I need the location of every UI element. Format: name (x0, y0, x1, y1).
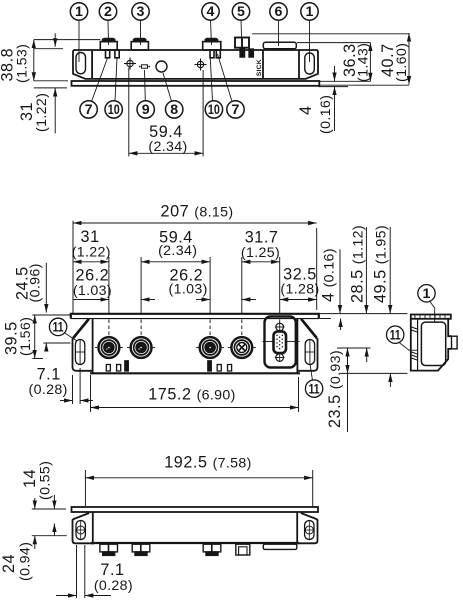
svg-text:(1.53): (1.53) (15, 44, 31, 83)
svg-text:4 (0.16): 4 (0.16) (320, 248, 338, 302)
svg-text:49.5 (1.95): 49.5 (1.95) (372, 225, 390, 303)
svg-text:26.2: 26.2 (76, 267, 110, 285)
svg-text:(1.56): (1.56) (18, 317, 34, 356)
svg-text:1: 1 (306, 4, 314, 20)
svg-text:7: 7 (232, 102, 240, 118)
svg-text:(0.55): (0.55) (38, 461, 54, 500)
svg-text:11: 11 (390, 327, 401, 343)
svg-text:31: 31 (81, 228, 100, 246)
svg-text:(0.16): (0.16) (318, 95, 334, 134)
svg-text:10: 10 (108, 102, 120, 118)
svg-text:(1.03): (1.03) (169, 282, 208, 298)
svg-text:14: 14 (21, 469, 39, 488)
svg-text:SICK: SICK (256, 59, 263, 76)
svg-text:23.5 (0.93): 23.5 (0.93) (326, 350, 344, 428)
svg-text:7.1: 7.1 (37, 366, 61, 384)
svg-text:9: 9 (142, 102, 150, 118)
svg-text:5: 5 (237, 4, 245, 20)
svg-text:28.5 (1.12): 28.5 (1.12) (349, 225, 367, 303)
svg-text:(1.03): (1.03) (73, 283, 112, 299)
svg-text:24: 24 (0, 554, 18, 573)
svg-text:(1.28): (1.28) (280, 281, 319, 297)
svg-text:2: 2 (104, 4, 112, 20)
svg-text:(1.22): (1.22) (72, 245, 111, 261)
svg-text:(1.22): (1.22) (34, 93, 50, 132)
svg-text:(1.60): (1.60) (394, 43, 410, 82)
svg-text:4: 4 (207, 4, 215, 20)
svg-text:10: 10 (208, 102, 220, 118)
svg-text:207 (8.15): 207 (8.15) (161, 203, 234, 221)
svg-text:7.1: 7.1 (100, 561, 124, 579)
svg-text:(0.28): (0.28) (94, 578, 133, 594)
svg-text:1: 1 (423, 286, 431, 302)
svg-text:3: 3 (137, 4, 145, 20)
svg-text:(1.25): (1.25) (241, 245, 280, 261)
svg-text:(0.94): (0.94) (18, 542, 34, 581)
svg-text:31.7: 31.7 (245, 229, 279, 247)
svg-text:6: 6 (275, 4, 283, 20)
svg-text:(1.43): (1.43) (356, 43, 372, 82)
svg-text:192.5 (7.58): 192.5 (7.58) (164, 454, 251, 472)
svg-text:(2.34): (2.34) (148, 139, 187, 155)
svg-text:(0.96): (0.96) (28, 263, 44, 302)
svg-text:175.2 (6.90): 175.2 (6.90) (148, 386, 235, 404)
svg-text:(0.28): (0.28) (29, 382, 68, 398)
svg-text:1: 1 (75, 4, 83, 20)
svg-text:11: 11 (53, 320, 64, 336)
svg-text:4: 4 (297, 105, 315, 115)
svg-text:8: 8 (170, 102, 178, 118)
svg-text:7: 7 (85, 102, 93, 118)
svg-text:(2.34): (2.34) (158, 243, 197, 259)
svg-text:11: 11 (309, 381, 320, 397)
